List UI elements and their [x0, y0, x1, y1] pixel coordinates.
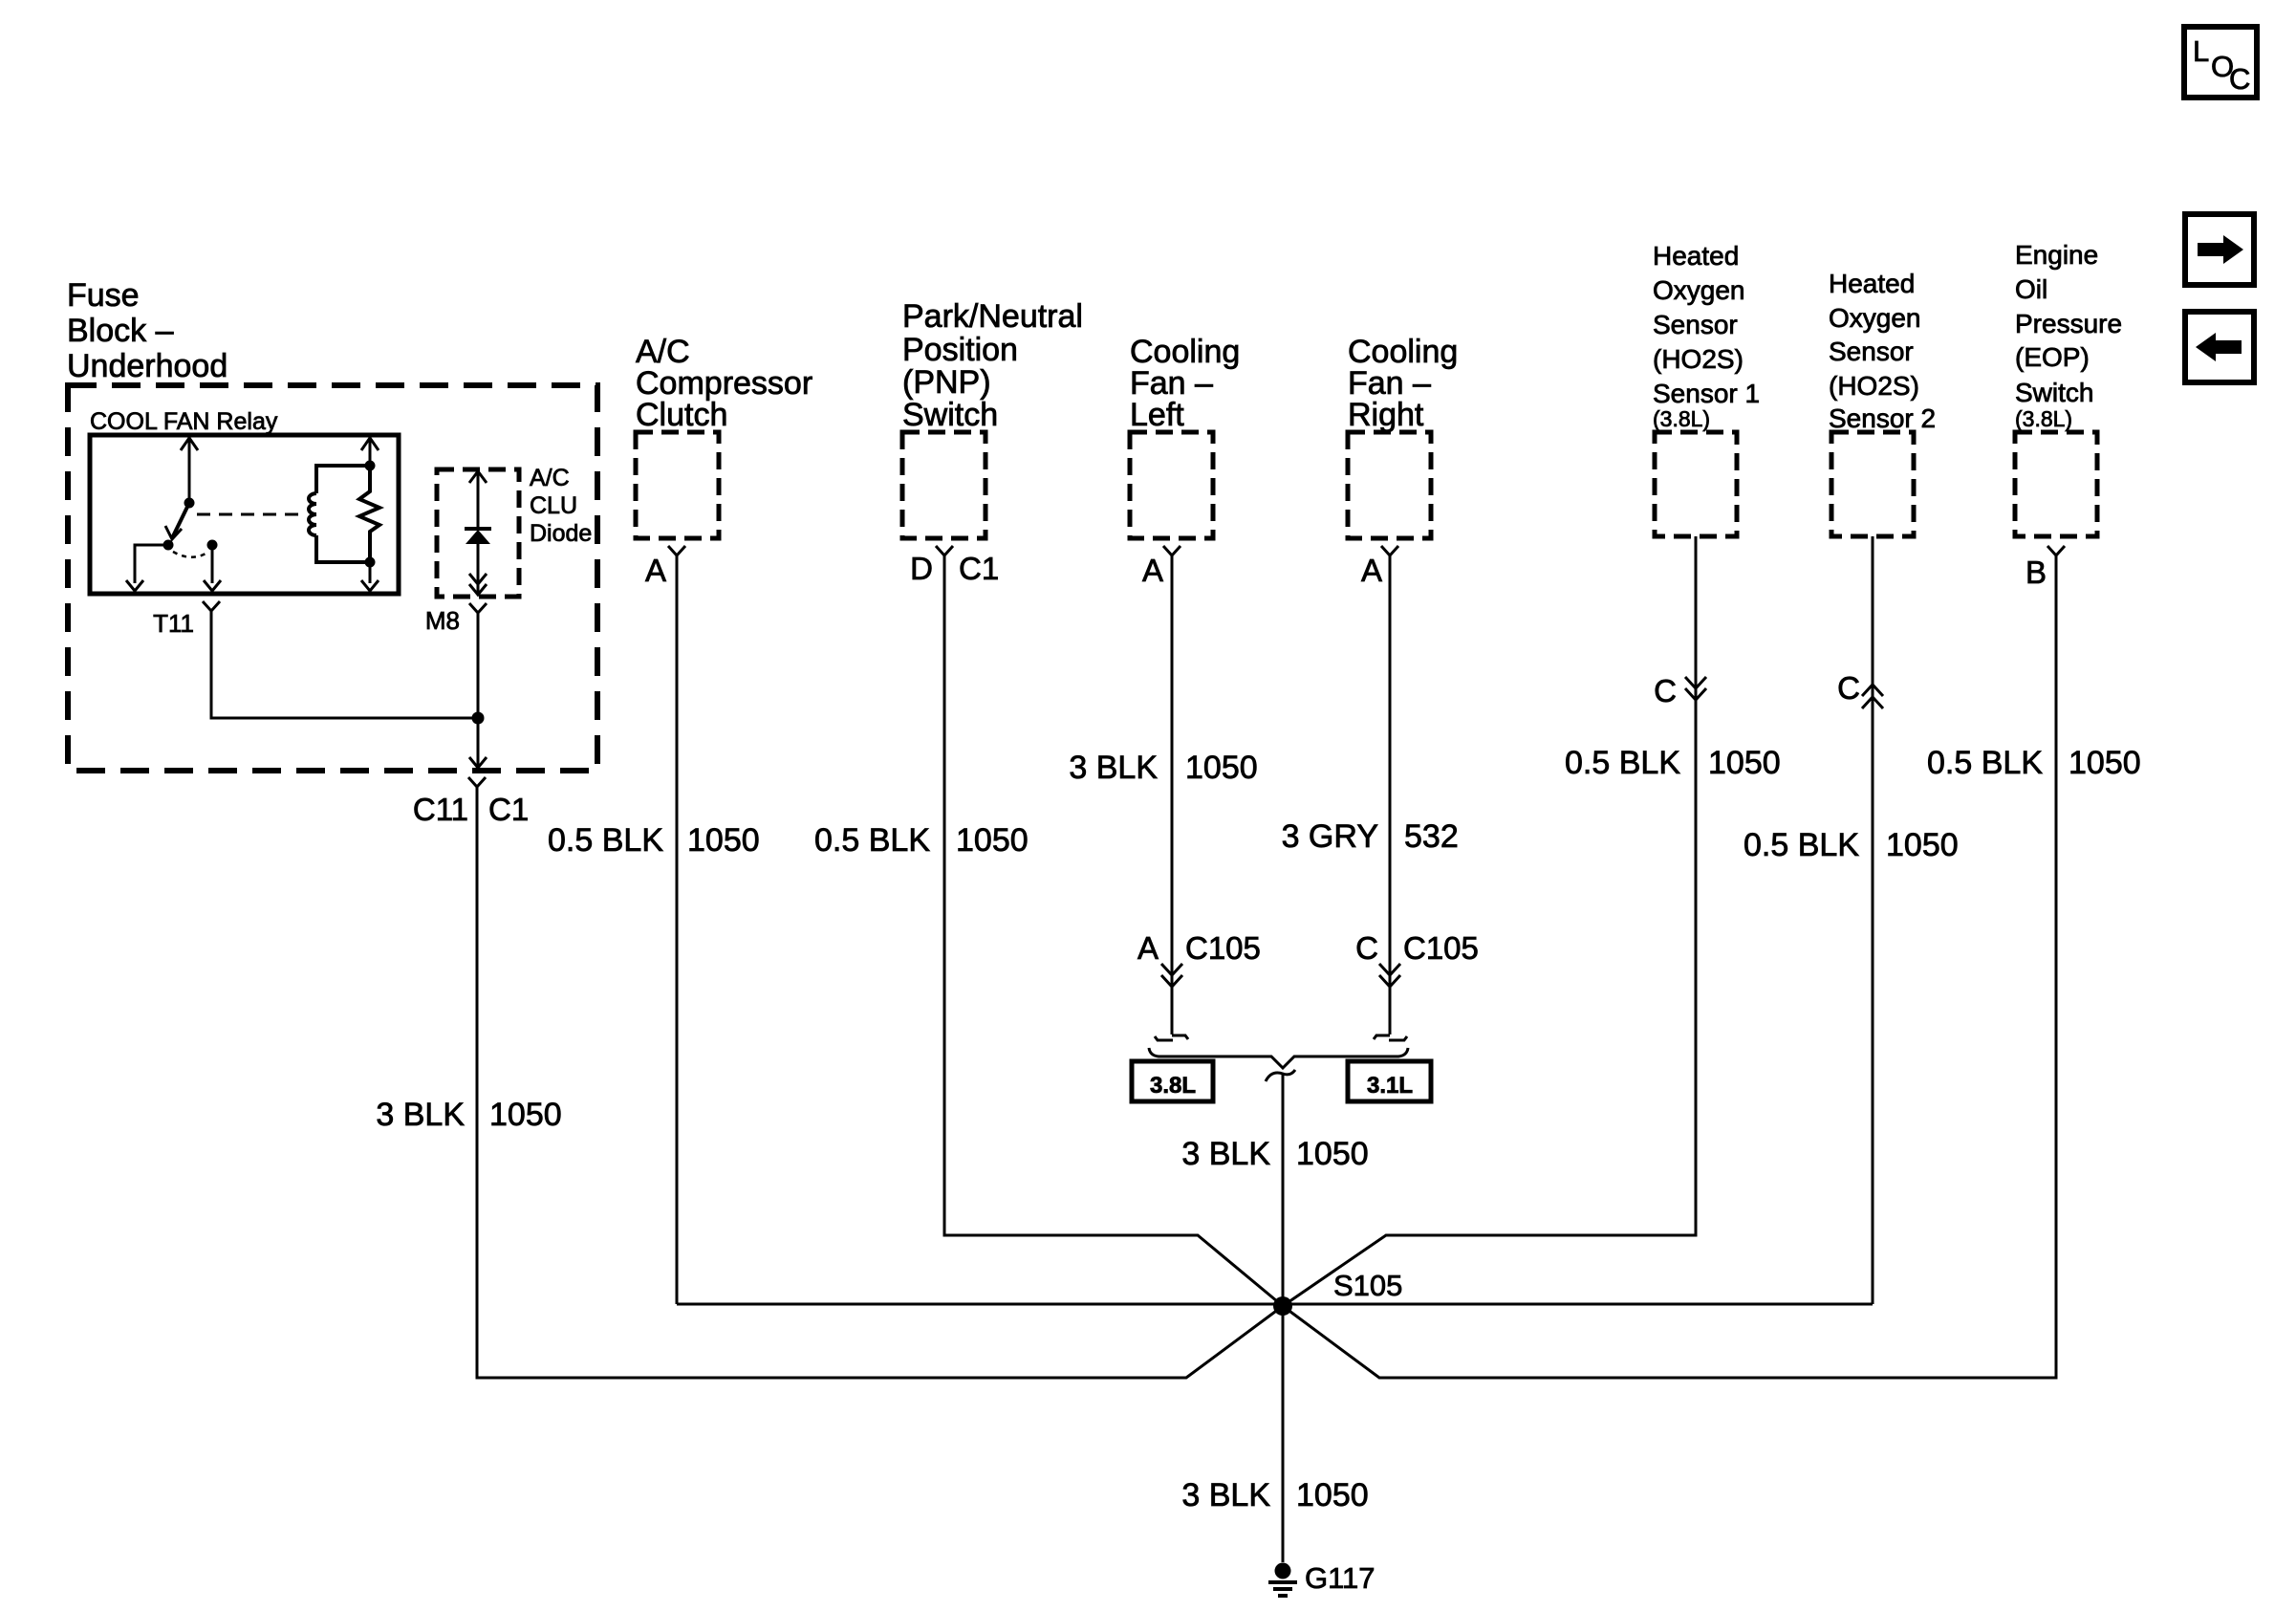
svg-text:Sensor 2: Sensor 2 [1829, 403, 1936, 433]
wire label 3 BLK 1050 (above S105) [1181, 1136, 1368, 1172]
svg-text:Sensor: Sensor [1829, 337, 1914, 366]
left arrow icon [2185, 312, 2254, 382]
relay switch arm [165, 503, 189, 539]
wire M8 down to fuse block edge [469, 613, 487, 768]
relay switch contact node (NC) [163, 540, 174, 551]
svg-text:C: C [1355, 930, 1378, 966]
svg-text:C: C [1654, 673, 1677, 708]
wire A/C clutch to S105 horizontal [676, 555, 679, 1304]
Cooling Fan - Left label [1130, 334, 1240, 433]
svg-text:3 BLK: 3 BLK [376, 1097, 465, 1133]
svg-text:COOL FAN Relay: COOL FAN Relay [90, 408, 278, 435]
svg-text:Diode: Diode [530, 520, 592, 547]
wire C1 down and right to S105 [477, 787, 1283, 1378]
svg-text:Right: Right [1348, 397, 1424, 433]
svg-text:3 BLK: 3 BLK [1181, 1477, 1270, 1513]
svg-text:1050: 1050 [1708, 745, 1781, 781]
svg-text:D: D [910, 551, 933, 586]
A/C CLU Diode dashed box [437, 469, 519, 597]
svg-text:S105: S105 [1333, 1269, 1402, 1302]
fan right wire end hooks [1374, 1035, 1407, 1040]
svg-text:3 GRY: 3 GRY [1282, 818, 1378, 855]
splice S105 node [1273, 1296, 1292, 1316]
svg-text:0.5 BLK: 0.5 BLK [1744, 827, 1859, 863]
svg-text:0.5 BLK: 0.5 BLK [814, 822, 930, 859]
wire label 3 GRY 532 (fan right) [1282, 818, 1459, 855]
Heated Oxygen Sensor 2 label [1829, 269, 1936, 433]
fan left wire end hooks [1155, 1035, 1188, 1040]
svg-text:(HO2S): (HO2S) [1653, 344, 1744, 374]
3.8L tag box [1132, 1061, 1213, 1101]
C11 C1 connector fork [468, 777, 486, 787]
Cooling fan left terminal fork [1163, 546, 1180, 555]
svg-text:Position: Position [902, 332, 1018, 368]
svg-text:C105: C105 [1403, 930, 1479, 966]
svg-text:A/C: A/C [530, 465, 570, 491]
relay coil pin wire (top) [361, 437, 379, 466]
svg-text:Park/Neutral: Park/Neutral [902, 298, 1083, 335]
EOP terminal fork [2047, 546, 2065, 555]
fuse block - underhood dashed box [68, 385, 597, 771]
inline connector chevrons (HO2S2) [1862, 685, 1883, 708]
Cooling Fan Right dashed box [1348, 432, 1431, 538]
relay coil top node [365, 461, 376, 471]
svg-text:Switch: Switch [902, 397, 998, 433]
svg-text:0.5 BLK: 0.5 BLK [1565, 745, 1680, 781]
svg-text:(3.8L): (3.8L) [1653, 406, 1710, 431]
svg-text:3.8L: 3.8L [1150, 1073, 1196, 1099]
svg-text:3 BLK: 3 BLK [1181, 1136, 1270, 1172]
A/C clutch terminal fork [668, 546, 685, 555]
svg-text:CLU: CLU [530, 492, 577, 519]
svg-text:3 BLK: 3 BLK [1069, 750, 1158, 786]
M8 terminal fork [469, 603, 487, 613]
svg-text:(EOP): (EOP) [2015, 342, 2090, 372]
svg-text:G117: G117 [1305, 1561, 1375, 1595]
Cooling Fan Left dashed box [1130, 432, 1213, 538]
wire brace to S105 to G117 [1282, 1074, 1285, 1562]
3.1L tag box [1348, 1061, 1431, 1101]
wire HO2S2 down to S105 horizontal [1872, 536, 1874, 1304]
wire EOP down and left to S105 [1283, 555, 2056, 1378]
wire PNP to S105 [944, 555, 1283, 1306]
relay coil pin wire (bottom) [361, 562, 379, 591]
svg-text:Oxygen: Oxygen [1829, 303, 1921, 333]
COOL FAN relay box [90, 435, 399, 594]
diode D1 [465, 469, 491, 595]
wire label 0.5 BLK 1050 (HO2S1) [1565, 745, 1781, 781]
relay coil bottom node [365, 557, 376, 568]
svg-text:T11: T11 [153, 609, 194, 638]
PNP terminal fork [936, 546, 953, 555]
svg-text:1050: 1050 [489, 1097, 562, 1133]
svg-text:M8: M8 [425, 606, 460, 635]
C105 inline connector chevrons (fan right) [1379, 964, 1400, 987]
relay second contact node [207, 540, 218, 551]
wire label 3 BLK 1050 (C1 wire) [376, 1097, 561, 1133]
svg-text:532: 532 [1404, 818, 1459, 855]
svg-text:Pressure: Pressure [2015, 309, 2122, 338]
svg-text:1050: 1050 [1886, 827, 1959, 863]
svg-text:Engine: Engine [2015, 240, 2098, 270]
Cooling Fan - Right label [1348, 334, 1458, 433]
svg-text:Sensor 1: Sensor 1 [1653, 379, 1760, 408]
svg-text:C: C [1837, 670, 1860, 706]
svg-text:0.5 BLK: 0.5 BLK [548, 822, 663, 859]
Cooling fan right terminal fork [1381, 546, 1398, 555]
svg-text:Fuse: Fuse [67, 277, 140, 314]
connector A C105 labels (fan left) [1137, 930, 1261, 966]
svg-text:B: B [2025, 555, 2047, 590]
relay actuation dashed link [197, 513, 304, 516]
right arrow icon [2185, 214, 2254, 285]
svg-text:1050: 1050 [1296, 1477, 1369, 1513]
svg-text:3.1L: 3.1L [1367, 1073, 1413, 1099]
svg-text:Switch: Switch [2015, 378, 2093, 407]
relay resistor R [359, 466, 379, 562]
wire HO2S1 down to S105 [1283, 536, 1696, 1306]
inline connector chevrons (HO2S1) [1685, 677, 1706, 700]
svg-text:1050: 1050 [2069, 745, 2141, 781]
C11 C1 connector labels [413, 792, 529, 827]
svg-text:Left: Left [1130, 397, 1184, 433]
svg-text:1050: 1050 [687, 822, 760, 859]
svg-text:Block –: Block – [67, 313, 174, 349]
svg-text:(PNP): (PNP) [902, 364, 991, 401]
wire label 0.5 BLK 1050 (A/C clutch) [548, 822, 760, 859]
Engine Oil Pressure Switch label [2015, 240, 2122, 431]
junction node T11/M8 [472, 712, 485, 725]
svg-text:L: L [2193, 34, 2209, 68]
relay movable contact dashed arc [173, 552, 207, 557]
svg-text:C1: C1 [488, 792, 529, 827]
relay coil L1 [309, 466, 370, 562]
svg-text:0.5 BLK: 0.5 BLK [1927, 745, 2043, 781]
svg-text:A: A [1361, 553, 1382, 588]
LOC icon box [2184, 27, 2257, 98]
wire label 0.5 BLK 1050 (HO2S2) [1744, 827, 1959, 863]
EOP switch dashed box [2015, 432, 2097, 536]
svg-text:1050: 1050 [1185, 750, 1258, 786]
wire fan right down [1389, 555, 1392, 1034]
svg-text:1050: 1050 [956, 822, 1029, 859]
wire label 0.5 BLK 1050 (EOP) [1927, 745, 2141, 781]
relay second contact pin wire [204, 545, 221, 591]
svg-text:Heated: Heated [1829, 269, 1915, 298]
C105 inline connector chevrons (fan left) [1161, 964, 1182, 987]
relay NC contact wire to pin [126, 545, 168, 591]
svg-text:(HO2S): (HO2S) [1829, 371, 1919, 401]
relay switch common pin wire [181, 437, 198, 503]
wire T11 to junction [211, 611, 478, 718]
squiggle at top of S105 wire [1266, 1070, 1295, 1081]
T11 terminal fork [203, 601, 220, 611]
engine grouping brace [1149, 1048, 1408, 1068]
Park/Neutral Position (PNP) Switch label [902, 298, 1083, 433]
svg-text:1050: 1050 [1296, 1136, 1369, 1172]
svg-text:C11: C11 [413, 792, 468, 827]
svg-text:C105: C105 [1185, 930, 1261, 966]
wire fan left down [1171, 555, 1174, 1034]
svg-text:A: A [1142, 553, 1163, 588]
svg-text:C1: C1 [959, 551, 999, 586]
Heated Oxygen Sensor 1 label [1653, 241, 1760, 431]
A/C CLU Diode label [530, 465, 592, 547]
svg-text:A: A [1137, 930, 1159, 966]
main horizontal wire through S105 [677, 1303, 1873, 1306]
relay switch pivot node [184, 498, 195, 509]
wire label 3 BLK 1050 (fan left) [1069, 750, 1257, 786]
wire label 3 BLK 1050 (above G117) [1181, 1477, 1368, 1513]
svg-text:Oil: Oil [2015, 274, 2047, 304]
svg-text:(3.8L): (3.8L) [2015, 406, 2072, 431]
svg-text:Sensor: Sensor [1653, 310, 1738, 339]
A/C Compressor Clutch label [636, 334, 812, 433]
svg-text:Oxygen: Oxygen [1653, 275, 1745, 305]
connector C C105 labels (fan right) [1355, 930, 1479, 966]
svg-text:Underhood: Underhood [67, 348, 227, 384]
HO2S sensor 1 dashed box [1655, 432, 1737, 536]
HO2S sensor 2 dashed box [1831, 432, 1914, 536]
PNP Switch dashed box [902, 432, 986, 538]
svg-text:Heated: Heated [1653, 241, 1739, 271]
fuse block label [67, 277, 227, 384]
svg-text:Clutch: Clutch [636, 397, 727, 433]
svg-text:C: C [2229, 62, 2250, 96]
wire label 0.5 BLK 1050 (PNP) [814, 822, 1029, 859]
svg-text:A: A [645, 553, 666, 588]
ground G117 [1268, 1563, 1297, 1597]
A/C Compressor Clutch dashed box [636, 432, 719, 538]
